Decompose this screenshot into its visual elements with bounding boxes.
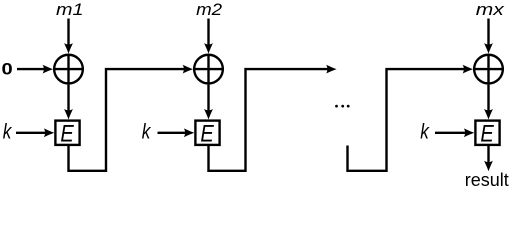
svg-text:k: k	[142, 121, 152, 144]
svg-text:E: E	[480, 121, 494, 148]
svg-text:E: E	[60, 121, 74, 148]
svg-text:mx: mx	[476, 0, 505, 19]
svg-text:result: result	[465, 170, 509, 189]
svg-text:m1: m1	[56, 0, 84, 19]
svg-text:k: k	[420, 121, 430, 144]
svg-text:m2: m2	[196, 0, 223, 19]
svg-text:E: E	[200, 121, 214, 148]
svg-text:0: 0	[2, 60, 13, 79]
svg-text:k: k	[3, 121, 13, 144]
